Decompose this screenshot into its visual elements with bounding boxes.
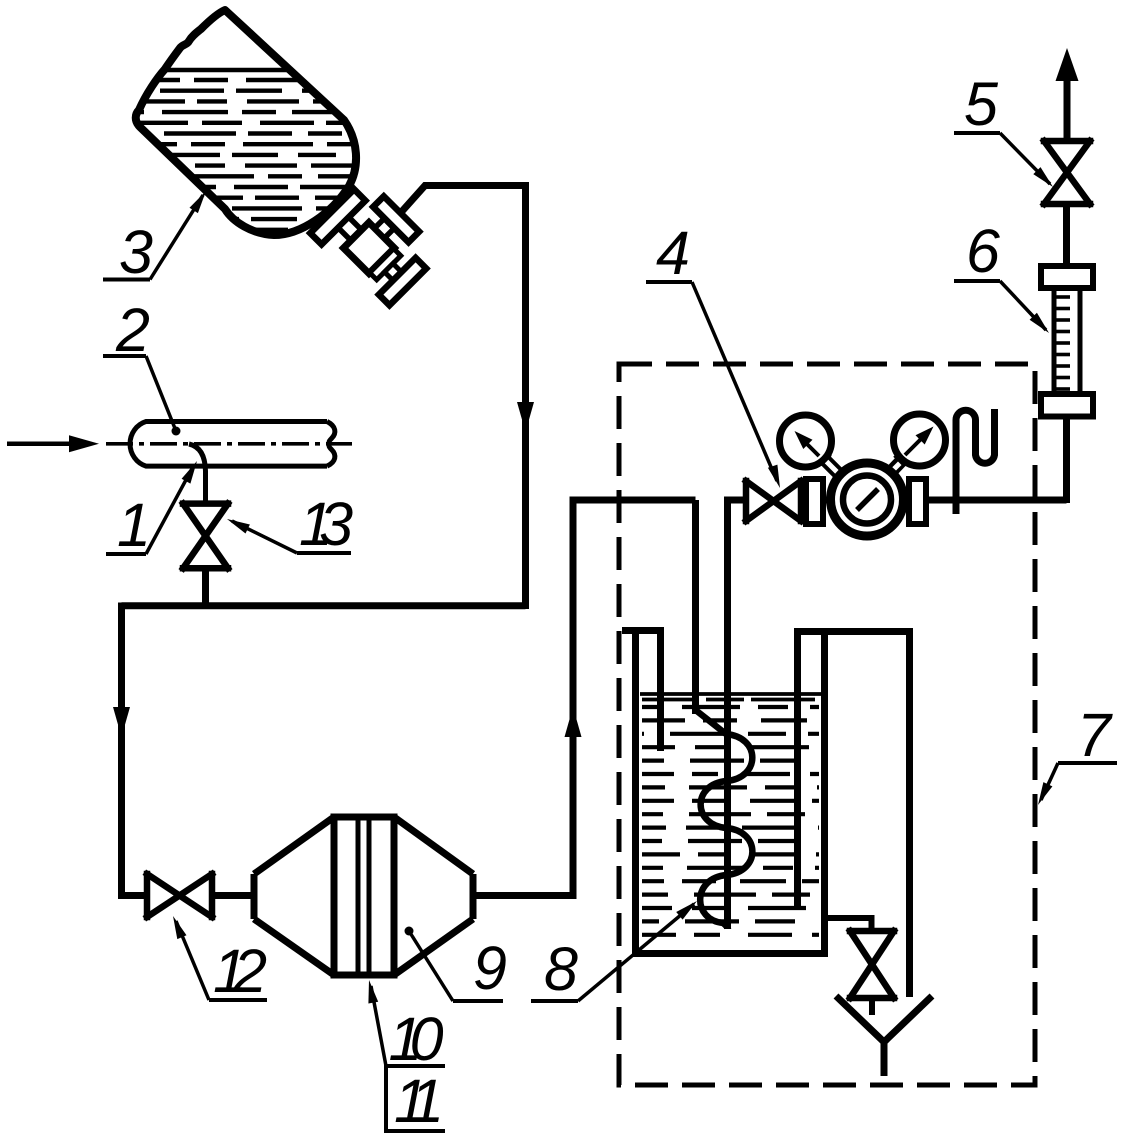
wire flowmeter to valve 5 <box>1063 204 1070 266</box>
thermostat enclosure 7 (dashed box) <box>619 364 1035 1085</box>
thermostat bath vessel <box>622 628 828 954</box>
gauge left (manometer) <box>780 415 832 467</box>
valve 13 <box>183 504 228 569</box>
svg-text:11: 11 <box>394 1067 444 1135</box>
valve 4 (regulator inlet valve) <box>746 481 801 521</box>
wire coil outlet riser to valve 4 <box>728 500 747 929</box>
pigtail siphon tube on outlet line <box>956 409 995 514</box>
svg-text:13: 13 <box>299 490 353 558</box>
pressure regulator body <box>831 463 904 536</box>
flowmeter 6 <box>1041 266 1093 417</box>
vessel 3 (tilted liquid bottle) <box>128 10 368 235</box>
flow arrow down on left pipe <box>113 707 130 737</box>
wire left down-pipe to valve 12 <box>122 603 148 896</box>
overflow siphon tube <box>798 632 910 998</box>
wire horizontal manifold y=606 <box>122 602 526 609</box>
bottle valve fitting on vessel 3 <box>310 178 441 309</box>
svg-text:12: 12 <box>213 937 267 1005</box>
centerline of tube 2 (dash-dot) <box>106 442 352 446</box>
svg-text:2: 2 <box>115 296 150 364</box>
svg-text:5: 5 <box>964 70 999 138</box>
sampling take-off node 1 <box>189 444 206 504</box>
regulator inlet flange <box>806 479 823 524</box>
svg-text:4: 4 <box>656 219 690 287</box>
svg-text:10: 10 <box>389 1005 444 1073</box>
gauge stem left <box>818 453 845 480</box>
wire from bottle valve to right down-pipe <box>400 186 526 610</box>
drain valve stem <box>869 998 875 1015</box>
drain line from bath <box>826 918 872 931</box>
wire valve 4 to regulator <box>801 497 830 504</box>
drain valve <box>850 931 894 998</box>
wire compressor to riser and over to coil inlet <box>473 500 696 896</box>
svg-text:9: 9 <box>473 934 507 1002</box>
valve 12 <box>147 874 212 917</box>
flow arrow down on right down-pipe <box>517 402 534 432</box>
svg-text:6: 6 <box>966 217 1000 285</box>
svg-text:8: 8 <box>544 935 578 1003</box>
svg-text:7: 7 <box>1077 701 1113 769</box>
compressor 9 (with membrane 10/11) <box>254 817 473 975</box>
wire regulator to outlet flange <box>900 497 930 504</box>
svg-text:3: 3 <box>119 218 153 286</box>
svg-text:1: 1 <box>117 491 151 559</box>
gauge stem right <box>886 456 906 477</box>
regulator outlet flange <box>909 479 926 524</box>
wire coil inlet down-pipe <box>692 500 699 714</box>
gauge right (manometer) <box>894 414 946 466</box>
vent outlet arrow up <box>1064 75 1071 141</box>
wire below valve 13 <box>202 568 209 609</box>
wire regulator outlet to flowmeter riser <box>926 497 1067 504</box>
wire riser to flowmeter 6 <box>1063 416 1070 503</box>
funnel <box>836 996 932 1076</box>
valve 5 (vent valve) <box>1044 141 1090 204</box>
bath liquid surface <box>640 692 821 696</box>
inlet flow arrow into tube 2 <box>7 442 72 447</box>
flow arrow up on riser <box>565 707 582 737</box>
wire valve 12 to compressor 9 <box>212 892 254 899</box>
probe tube 2 <box>130 422 335 467</box>
cooling coil 8 <box>696 710 753 929</box>
